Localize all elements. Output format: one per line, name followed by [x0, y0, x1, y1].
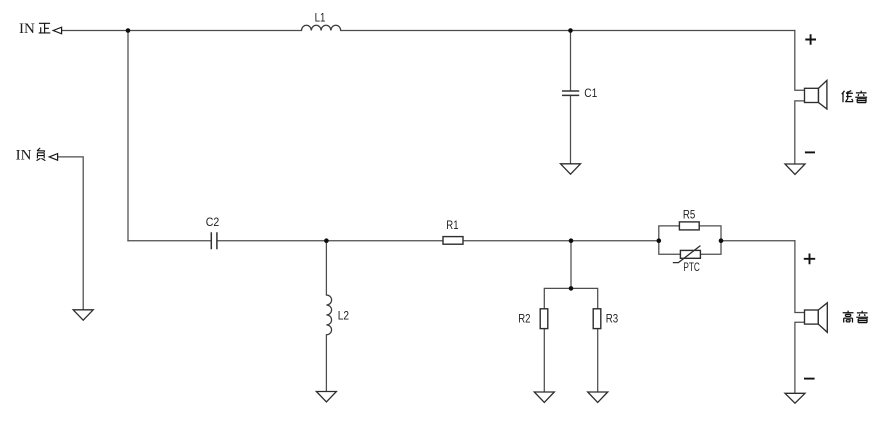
svg-text:IN: IN [16, 148, 32, 164]
svg-text:R2: R2 [518, 313, 530, 325]
svg-text:R5: R5 [683, 209, 695, 221]
svg-text:R3: R3 [606, 313, 618, 325]
svg-text:L2: L2 [338, 311, 349, 323]
svg-text:PTC: PTC [683, 262, 700, 274]
svg-text:C2: C2 [206, 217, 220, 229]
svg-text:C1: C1 [584, 88, 597, 100]
svg-text:IN: IN [19, 21, 35, 37]
svg-text:L1: L1 [315, 13, 326, 25]
svg-text:R1: R1 [446, 220, 458, 232]
